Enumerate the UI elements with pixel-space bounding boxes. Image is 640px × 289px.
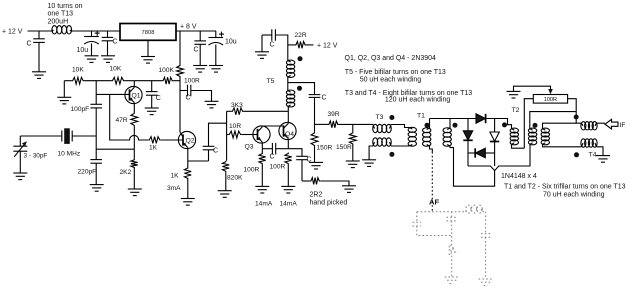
wire 150R a to ground [314,147,316,163]
svg-text:10u: 10u [225,39,237,46]
svg-text:10u: 10u [77,47,89,54]
resistor 1K Q2 [184,167,191,180]
svg-text:C: C [322,95,327,102]
inductor T2 winding3 [541,128,549,145]
svg-text:10K: 10K [110,66,122,73]
wire cap ground stem [261,35,263,52]
wire Q2 collector slant [180,132,183,137]
svg-text:100K: 100K [159,67,175,74]
wire C5 to ground [199,44,201,65]
capacitor C emitters [272,143,275,155]
ground AF mid dotted [445,277,459,284]
wire Q4 emitter node right [288,149,302,157]
wire C1 to ground [38,42,40,71]
wire Q2 emitter node [188,160,209,162]
ground C1 [32,72,46,79]
wire crystal left [20,135,62,137]
wire trimmer top [19,136,21,146]
resistor 100R Q4 [285,153,292,165]
wire C1 top [38,31,40,39]
wire feedback with hop [110,94,149,140]
inductor T5 winding1 [286,60,294,77]
wire 2K2 to ground [133,169,135,190]
wire Q1 emitter to 47R [133,103,135,113]
capacitor 100pF [90,104,102,108]
capacitor 220pF [90,160,102,164]
svg-text:1K: 1K [149,144,158,151]
svg-text:T4: T4 [589,152,597,159]
wire 3K3 right [244,110,288,112]
inductor T3 primary [373,124,392,132]
diode D4 [475,148,485,157]
transistor Q3 [253,126,270,143]
svg-text:AF: AF [429,197,439,206]
wire 150R b top [352,124,354,131]
regulator 7808 [120,24,176,41]
resistor 100R [177,65,184,78]
wire C4 left [180,90,188,92]
wire T2 w3 bottom [543,144,582,147]
node dot T2 winding2 [533,123,538,128]
wire 100R to Q2 collector [179,78,181,133]
wire 8V rail drop [179,31,181,65]
wire 1K Q2 to ground [187,180,189,199]
svg-text:Q1: Q1 [132,93,141,100]
inductor L1 [52,26,72,34]
svg-text:100R: 100R [544,97,557,103]
ground 10u output [209,66,223,73]
arrow IF input [605,119,618,129]
resistor 100R Q3 [259,153,266,165]
svg-text:hand picked: hand picked [310,200,348,207]
wire 150R a top [314,124,316,131]
svg-text:10 turns on: 10 turns on [48,3,83,10]
capacitor C1 [33,39,45,43]
wire bias junction down [95,81,97,105]
resistor 10K1 [72,77,85,84]
svg-text:14mA: 14mA [255,201,273,208]
wire 10K2 to Q1 collector [125,80,135,82]
svg-text:T3: T3 [376,114,384,121]
wire 220pF to ground [95,163,97,184]
resistor 22R [295,42,306,49]
wire trimmer to ground [19,151,21,173]
wire C coupling top [209,123,227,146]
transistor Q4 [279,122,296,139]
wire T5 top cap left [262,34,272,36]
wire 10K1 ground stem [63,81,65,98]
capacitor C T5 [272,29,276,41]
wire AF right down dotted [485,212,487,234]
inductor AF dotted [466,205,483,213]
wire ring top rail left [430,118,477,120]
svg-text:one T13: one T13 [48,11,74,18]
wire C4 right to ground [191,91,212,102]
wire T3 primary right [391,125,410,128]
ground T4 [596,156,610,163]
svg-text:T1: T1 [417,113,425,120]
ground 7808 [141,57,155,64]
node dot pot junction [574,115,579,120]
svg-text:39R: 39R [328,111,340,118]
wire 39R to T3 [339,123,373,125]
wire ring top rail right [486,119,512,129]
svg-text:3mA: 3mA [167,185,181,192]
wire Q3 collector to Q4 base [262,125,283,128]
wire Q2 emitter down [187,148,189,161]
svg-text:C: C [270,42,275,49]
wire Q4 100R to ground [287,165,289,187]
ground trimmer [13,173,27,180]
wire T4 secondary to ground [597,147,604,156]
wire Q3 emitter down [261,142,263,149]
wire T2 w1 bottom [512,144,525,148]
svg-text:T1 and T2 - Six trifilar turns: T1 and T2 - Six trifilar turns on one T1… [504,183,626,190]
ground 100R Q3 [255,186,269,193]
svg-text:820K: 820K [227,175,243,182]
svg-text:150R: 150R [336,144,352,151]
svg-text:70 uH each winding: 70 uH each winding [543,191,605,198]
wire T4 primary to IF [597,122,606,124]
svg-text:T5: T5 [267,78,275,85]
wire Q4 collector [287,107,289,124]
wire AF drop dotted [431,152,433,212]
svg-text:100R: 100R [244,167,260,174]
transistor Q1 [125,86,142,103]
resistor 150R b [349,132,356,145]
wire 10R to Q3 base [242,134,258,136]
wire T1 B bottom to AF [430,146,433,152]
wire T2 w3 top [543,123,582,128]
wire AF mid to ground dotted [451,256,453,277]
wire 10u cap1 to ground [91,44,93,56]
svg-text:120 uH each winding: 120 uH each winding [385,97,450,104]
resistor 1K feedback [148,137,161,144]
wire C to 2R2 [301,160,303,181]
wire AF left branch down dotted [417,226,452,236]
svg-text:Q3: Q3 [245,144,254,151]
svg-text:47R: 47R [116,117,128,124]
capacitor C9 tap [309,95,321,98]
node dot T5 winding2 [297,86,302,91]
diode D1 [476,114,486,123]
resistor 10K2 [111,77,124,84]
transistor Q2 [178,131,195,148]
wire AF right to ground dotted [485,237,487,279]
node dot T3 bottom [389,152,394,157]
svg-text:+ 12 V: + 12 V [2,29,23,36]
wire C3 to ground [107,41,109,56]
wire cap to Q4 emitter [276,148,289,150]
wire 2R2 left [302,180,310,182]
resistor 3K3 [231,108,243,115]
wire T5 tap right [288,83,315,95]
wire 1K Q2 top [187,161,189,167]
capacitor C coupling Q2 [203,146,215,150]
wire L1 to 7808 input [72,30,121,32]
wire Q1 base [96,93,129,95]
wire 100R pot left [524,99,533,149]
svg-text:C: C [113,39,118,46]
wire T1 B top to rail [429,119,431,129]
svg-text:IF: IF [620,122,626,129]
svg-text:2K2: 2K2 [120,169,132,176]
crystal X1 10MHz [62,128,72,144]
diode D2 [463,131,472,141]
wire 1K to Q2 base [161,139,183,141]
wire 820K to ground [225,172,227,190]
ground C3 [101,56,115,63]
wire D3 top [494,119,496,133]
svg-text:C: C [213,148,218,155]
resistor 100K [162,77,173,84]
wire T1 C bottom loop [450,146,495,186]
wire 100K left [134,80,162,82]
svg-text:100R: 100R [270,164,286,171]
wire 47R to 2K2 junction [133,126,135,158]
wire 10u cap1 top [91,31,93,37]
wire C9 to 39R junction [314,97,316,124]
svg-text:C: C [270,154,275,161]
resistor 47R [131,112,138,126]
wire Q3 100R to ground [261,165,263,187]
wire 150R b to ground [352,145,354,161]
svg-text:14mA: 14mA [280,201,298,208]
wire 100pF to crystal node [95,108,97,160]
wire Q3 emitter to cap [262,148,272,150]
ground 10K1 [57,97,71,104]
capacitor 10u output [209,32,225,45]
wire crystal right [72,135,96,137]
wire ring bottom rail [468,144,530,170]
ground 1K Q2 [181,199,195,206]
svg-text:10R: 10R [229,123,241,130]
node dot T4 bottom [574,152,579,157]
resistor 820K [222,161,229,173]
svg-text:10K: 10K [72,67,84,74]
capacitor AF left dotted [413,222,422,226]
resistor 10R [228,131,241,138]
wire Q1 base to feedback drop [95,93,97,95]
wire crystal node to 2K2 wire [96,148,134,150]
wire cap to T5 vertical [275,35,287,61]
svg-text:150R: 150R [317,145,333,152]
node dot T1 C [453,123,458,128]
wire 10K1 left to ground drop [64,80,71,82]
wire T3 secondary left [369,146,373,160]
svg-text:Q1, Q2, Q3 and Q4 - 2N3904: Q1, Q2, Q3 and Q4 - 2N3904 [345,55,437,62]
wire AF mid down dotted [451,221,453,245]
resistor 2R2 [310,178,320,185]
ground 10u input [85,56,99,63]
inductor T3 secondary [373,138,392,146]
resistor 39R [328,121,339,128]
node dot T1 B [425,123,430,128]
svg-text:1K: 1K [171,173,180,180]
wire 10u cap2 top [215,31,217,38]
wire C coupling bottom [208,150,210,161]
wire 3K3-10R vertical [226,111,228,160]
capacitor C3 [102,37,114,40]
wire 2R2 right [320,181,349,186]
wire C5 top [199,31,201,41]
svg-text:10 MHz: 10 MHz [58,151,81,158]
svg-text:220pF: 220pF [78,169,97,176]
arrow pot wiper [548,89,553,94]
resistor 150R a [311,132,318,147]
svg-text:+ 8 V: + 8 V [180,23,197,30]
wire D2 bottom [467,140,469,166]
svg-text:22R: 22R [295,32,307,39]
svg-text:Q2: Q2 [186,138,195,145]
svg-text:7808: 7808 [142,30,155,36]
wire AF horizontal dotted [417,211,466,213]
wire AF after coil dotted [483,211,486,213]
wire Q3 100R top [261,149,263,153]
ground T3 [362,160,376,167]
ground C Q1 bypass [145,108,159,115]
svg-text:2R2: 2R2 [310,192,323,199]
inductor T1 winding A [408,127,416,146]
svg-text:C: C [186,95,191,102]
ground 220pF [90,185,104,192]
ground C T5 [255,52,269,59]
ground 2K2 [128,189,142,196]
wire 22R to +12V [306,44,313,46]
ground C4 [205,101,219,108]
wire Q1 collector [133,81,135,88]
wire D2 top [467,119,469,131]
wire D3 bottom [494,142,496,167]
wire 10R left [227,134,229,136]
wire +8V rail [176,30,216,32]
capacitor AF right dotted [481,234,490,238]
wire AF mid top dotted [451,212,453,218]
node dot T5 winding1 [298,56,303,61]
wire +12V to C junction [28,30,53,32]
wire Q1 bypass cap to ground [151,95,153,108]
capacitor C 2R2 [296,156,308,159]
ground 820K [218,191,232,198]
wire C3 top [107,31,109,37]
svg-text:C: C [27,41,32,48]
wire 100K right to rail drop [173,80,180,82]
wire AF left branch dotted [416,212,418,223]
wire 10u cap2 to ground [215,45,217,66]
capacitor C Q1 bypass [146,92,158,96]
inductor T2 winding2 [528,128,536,145]
ground 150R b [346,161,360,168]
wire pot wiper [514,86,551,91]
wire T3 secondary right [391,145,410,147]
ground 2R2 [342,186,356,193]
resistor 2K2 [131,159,138,169]
wire T2 w2 top [530,112,576,129]
inductor T4 primary [581,122,597,130]
svg-text:50 uH each winding: 50 uH each winding [360,76,422,83]
resistor AF dotted [449,245,455,256]
svg-text:T5 - Five bifilar turns on one: T5 - Five bifilar turns on one T13 [345,69,446,76]
inductor T2 winding1 [510,128,518,145]
wire Q4 emitter down [287,139,289,149]
wire Q1 bypass cap top [151,81,153,92]
inductor T4 secondary [581,139,597,147]
svg-text:200uH: 200uH [48,18,69,25]
svg-text:100pF: 100pF [71,106,90,113]
svg-text:1N4148 x 4: 1N4148 x 4 [501,173,537,180]
svg-text:C: C [194,47,199,54]
capacitor C5 [194,41,206,44]
wire pot right [568,99,577,124]
ground C5 [193,66,207,73]
inductor T5 winding2 [286,90,294,107]
wire T5 center tap [287,77,289,91]
wire 22R left [288,44,295,46]
trimmer capacitor 3-30pF [13,141,27,157]
node dot T2 left [502,122,507,127]
ground pot wiper [507,91,521,98]
svg-text:3 - 30pF: 3 - 30pF [24,153,48,160]
inductor T1 winding C [443,128,451,147]
capacitor C4 [188,85,191,97]
capacitor AF mid dotted [447,217,458,221]
wire D4 left [468,152,475,154]
svg-text:C: C [156,95,161,102]
ground AF right dotted [479,279,493,286]
ground 150R a [309,162,323,169]
wire D4 right [485,152,494,154]
inductor T1 winding B [423,128,431,147]
diode D3 [490,132,499,142]
svg-text:Q4: Q4 [285,131,294,138]
wire 3K3 left [227,110,232,112]
node dot T3 top [389,115,394,120]
svg-text:100R: 100R [184,78,200,85]
wire T1 C top to rail [449,119,451,129]
wire 10K1 to junction [84,80,111,82]
wire 7808 ground pin [147,40,149,56]
potentiometer 100R [533,95,567,104]
wire junction to 39R [315,123,328,125]
capacitor 10u input [84,31,100,44]
svg-text:+ 12 V: + 12 V [317,42,338,49]
ground 100R Q4 [281,186,295,193]
svg-text:T2: T2 [512,107,520,114]
